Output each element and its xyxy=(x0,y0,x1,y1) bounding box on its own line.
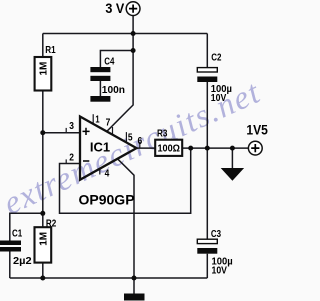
svg-text:R1: R1 xyxy=(45,44,56,56)
svg-text:C2: C2 xyxy=(211,52,221,64)
svg-text:2µ2: 2µ2 xyxy=(13,255,32,267)
svg-text:4: 4 xyxy=(105,169,110,180)
svg-text:100n: 100n xyxy=(102,84,125,96)
svg-text:C3: C3 xyxy=(211,228,221,240)
svg-text:R3: R3 xyxy=(157,128,168,140)
svg-text:100Ω: 100Ω xyxy=(157,142,180,154)
svg-text:10V: 10V xyxy=(212,265,228,277)
svg-text:1V5: 1V5 xyxy=(246,122,268,138)
svg-text:C1: C1 xyxy=(12,227,22,239)
svg-text:6: 6 xyxy=(138,136,143,147)
svg-text:1: 1 xyxy=(95,114,100,125)
svg-text:IC1: IC1 xyxy=(90,140,110,155)
svg-text:R2: R2 xyxy=(46,218,57,230)
svg-text:7: 7 xyxy=(106,117,111,128)
svg-text:1M: 1M xyxy=(38,232,49,246)
svg-text:3 V: 3 V xyxy=(105,0,124,16)
svg-text:10V: 10V xyxy=(211,92,227,104)
svg-text:OP90GP: OP90GP xyxy=(79,191,135,207)
svg-text:2: 2 xyxy=(69,152,74,163)
svg-text:5: 5 xyxy=(128,132,133,143)
svg-text:C4: C4 xyxy=(104,55,114,67)
svg-text:1M: 1M xyxy=(39,62,50,76)
svg-text:3: 3 xyxy=(69,121,74,132)
